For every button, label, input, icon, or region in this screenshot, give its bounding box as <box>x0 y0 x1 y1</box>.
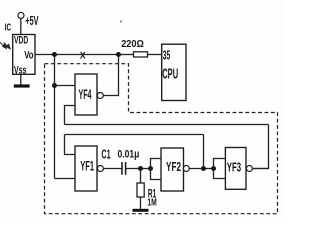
scan speck <box>120 21 122 23</box>
ground (IC) <box>14 84 30 87</box>
wire node A down left side <box>54 55 56 179</box>
svg-text:VDD: VDD <box>14 34 29 46</box>
wire YF4 input 2 to feedback bus 1 <box>65 106 76 125</box>
node A junction <box>52 52 57 57</box>
svg-text:1M: 1M <box>147 198 156 209</box>
node E junction (YF2 input tie) <box>148 166 153 171</box>
svg-text:220Ω: 220Ω <box>121 39 144 50</box>
wire node A line to YF1 input 2 <box>55 178 76 180</box>
svg-text:35: 35 <box>163 48 171 62</box>
svg-text:YF3: YF3 <box>227 159 241 174</box>
wire YF3 output to bus 1 riser <box>252 168 268 170</box>
wire C1 to node E <box>126 168 151 170</box>
node G junction (YF3 input tie) <box>211 166 216 171</box>
wire Vss to ground <box>20 74 22 84</box>
wire node A to node B <box>55 54 119 56</box>
NAND gate YF4 body <box>75 74 97 115</box>
YF2 input tie jog <box>151 159 162 180</box>
wire node F to feedback bus 2 <box>203 135 205 169</box>
resistor 220&#937; body <box>134 52 148 57</box>
wire Vo to node A <box>35 54 55 56</box>
node F junction (feedback tap) <box>201 166 206 171</box>
svg-text:+5V: +5V <box>25 13 38 28</box>
wire +5V terminal to VDD <box>20 18 22 34</box>
svg-text:YF4: YF4 <box>79 87 92 102</box>
YF3 input tie jog <box>214 159 226 179</box>
wire resistor to CPU pin 35 <box>148 54 162 56</box>
svg-text:YF2: YF2 <box>166 159 181 174</box>
node B junction <box>116 52 121 57</box>
wire YF1 output to C1 <box>104 168 122 170</box>
capacitor C1 <box>122 162 126 175</box>
wire node C to YF4 input 1 <box>55 85 76 87</box>
IR light arrow 1 <box>0 42 6 48</box>
+5V supply terminal <box>18 12 24 18</box>
NAND gate YF2 body <box>161 148 184 191</box>
NAND gate YF1 body <box>75 146 97 191</box>
YF4 output bubble <box>97 93 103 99</box>
ground (R1) <box>133 209 149 212</box>
YF3 output bubble <box>246 166 252 172</box>
svg-text:0.01μ: 0.01μ <box>118 148 140 160</box>
svg-text:C1: C1 <box>101 147 110 161</box>
feedback bus 2 (YF2 to YF1) <box>65 134 204 136</box>
wire bus 2 down to YF1 input 1 <box>65 135 76 155</box>
wire node D to R1 <box>140 169 142 184</box>
IR light arrow 2 <box>4 43 10 49</box>
photo receiver IC body <box>13 35 35 75</box>
node C junction <box>52 83 57 88</box>
svg-text:IC: IC <box>5 23 12 34</box>
NAND gate YF3 body <box>225 148 246 190</box>
svg-text:CPU: CPU <box>162 65 178 82</box>
feedback bus 1 (YF3 to YF4) <box>65 124 269 126</box>
YF2 output bubble <box>183 166 189 172</box>
CPU body <box>162 44 186 100</box>
wire YF4 output to node B <box>103 55 118 96</box>
wire YF2 output to YF3 <box>189 168 213 170</box>
wire R1 to ground <box>140 197 142 209</box>
wire bus 1 riser to YF3 output <box>252 125 268 169</box>
svg-text:YF1: YF1 <box>80 159 94 174</box>
svg-text:Vo: Vo <box>24 50 34 62</box>
YF1 output bubble <box>97 166 103 172</box>
node D junction <box>138 166 143 171</box>
resistor R1 body <box>137 183 144 197</box>
wire node B to resistor 220 <box>119 54 134 56</box>
break mark X <box>81 52 85 59</box>
module boundary (dashed box) <box>45 64 278 214</box>
